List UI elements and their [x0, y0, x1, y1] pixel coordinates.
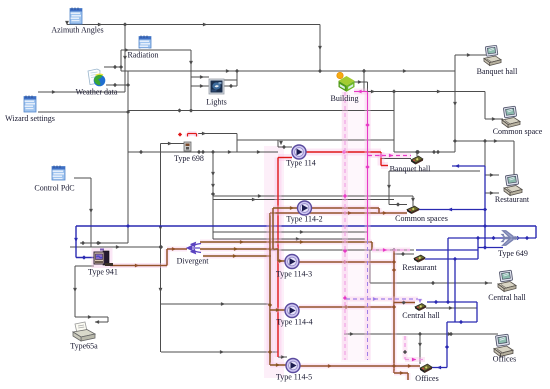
fan unit Banquet hall: [411, 156, 423, 165]
wire restaurant fan left stub: [394, 252, 414, 256]
pump Type 114-3: [285, 255, 299, 269]
pc Offices: [494, 334, 513, 356]
fan unit Offices: [420, 364, 432, 373]
notepad Azimuth Angles: [70, 8, 82, 25]
wire row y140 and pump type114 input: [237, 140, 394, 149]
wire wizard-settings lower output: [38, 111, 128, 113]
svg-text:Banquet hall: Banquet hall: [390, 165, 431, 174]
wire azimuth-angles output: [65, 21, 322, 71]
wire brown vertical x270: [268, 213, 272, 365]
wire row y196 to common spaces: [213, 194, 415, 206]
wire row y247: [70, 245, 163, 249]
wire violet central fan dashed: [346, 297, 422, 303]
wire azimuth column to wizard row: [38, 25, 127, 94]
svg-text:Divergent: Divergent: [177, 257, 210, 266]
wire restaurant pc top input: [455, 139, 514, 177]
svg-text:Type 649: Type 649: [498, 249, 528, 258]
svg-text:Lights: Lights: [206, 98, 226, 107]
wire row y152 left: [128, 150, 278, 154]
wire brown central fan feed: [394, 300, 415, 304]
svg-text:Type 941: Type 941: [88, 268, 118, 277]
svg-text:Type 114-2: Type 114-2: [286, 215, 322, 224]
wire row y308: [426, 306, 477, 310]
wire brown vertical x394: [392, 250, 396, 373]
wire control-pdc output: [74, 178, 93, 247]
wire brown divergent out2: [200, 247, 285, 263]
svg-text:Wizard settings: Wizard settings: [5, 114, 55, 123]
wire brown pump114-4 output: [299, 305, 394, 309]
wire row y110: [128, 108, 394, 112]
pump Type 114-2: [298, 201, 312, 215]
wire brown divergent out1: [200, 240, 372, 250]
svg-text:Central hall: Central hall: [402, 311, 440, 320]
wire lights input bottom: [191, 84, 209, 88]
fan unit Common spaces: [407, 206, 419, 214]
wire brown offices fan feed2: [394, 371, 408, 380]
wire blue main bus y226: [74, 224, 536, 260]
wire brown pump114-5 output offices feed: [300, 364, 420, 368]
wire row y334 offices pc: [344, 332, 498, 336]
wire building output black: [354, 69, 503, 121]
icon Type 941: [92, 248, 114, 268]
wire blue plane row y238: [448, 236, 536, 240]
wire red type698 bracket: [178, 132, 197, 136]
wire type941 bottom loop to type65a: [73, 266, 108, 324]
wire blue common fan: [419, 208, 485, 212]
notepad Control PdC: [52, 166, 65, 181]
wire box right x394 and bottom: [394, 55, 457, 154]
wire row y199.5: [213, 198, 394, 202]
svg-text:Type65a: Type65a: [70, 342, 98, 351]
wire magenta building output x367: [354, 90, 370, 240]
wire type698 top loop: [198, 132, 237, 152]
wire type698 input: [161, 142, 187, 146]
pink highlight band central column: [264, 146, 284, 378]
wire restaurant pc stub2: [485, 191, 499, 195]
svg-text:Common spaces: Common spaces: [395, 214, 448, 223]
svg-text:Control PdC: Control PdC: [34, 184, 74, 193]
notepad Wizard settings: [24, 96, 36, 113]
wire blue stub y166: [452, 164, 485, 168]
svg-text:Banquet hall: Banquet hall: [477, 67, 518, 76]
pump Type 114: [292, 145, 306, 159]
wire magenta vertical x367 dashed lower: [365, 240, 371, 360]
pink highlight band magenta columns: [341, 90, 371, 362]
wire blue plane to central fan: [427, 238, 477, 304]
svg-text:Azimuth Angles: Azimuth Angles: [51, 26, 103, 35]
wire lights output: [224, 71, 237, 88]
svg-text:Type 698: Type 698: [174, 154, 204, 163]
pc Central hall: [498, 270, 516, 291]
wire restaurant pc stub1: [485, 173, 499, 177]
svg-text:Central hall: Central hall: [488, 293, 526, 302]
svg-text:Type 114: Type 114: [286, 159, 316, 168]
icon Type 698: [184, 142, 191, 151]
fan unit Restaurant: [414, 255, 425, 263]
svg-text:Offices: Offices: [493, 355, 516, 364]
pc Restaurant: [504, 174, 522, 195]
svg-text:Radiation: Radiation: [127, 51, 158, 60]
wire blue central-offices path: [432, 302, 477, 369]
wire red pump type114 loop: [278, 150, 388, 357]
wire magenta restaurant fan dashed: [372, 248, 410, 252]
wire offices fan top drop: [418, 334, 422, 364]
wire vertical x213 row y239: [211, 152, 365, 241]
wire row y352: [161, 350, 287, 359]
svg-text:Restaurant: Restaurant: [402, 263, 437, 272]
pump Type 114-5: [286, 359, 300, 373]
wire brown common-spaces feed y213: [270, 211, 407, 215]
pc Common space: [502, 106, 520, 127]
svg-text:Type 114-5: Type 114-5: [276, 373, 312, 382]
svg-text:Offices: Offices: [415, 374, 438, 383]
wire lights input top: [191, 75, 209, 79]
svg-text:Type 114-3: Type 114-3: [276, 270, 312, 279]
wire magenta banquet fan dashed: [368, 154, 411, 158]
wire weather-data lower output: [106, 83, 128, 87]
wire vertical x160: [158, 144, 162, 353]
wire brown pump114-2 output: [312, 208, 379, 213]
svg-text:Common space: Common space: [493, 127, 543, 136]
wire long horizontal y71: [121, 69, 455, 73]
wire brown pump114-3 output: [299, 260, 394, 264]
wire blue vertical x455: [454, 259, 456, 322]
wire row y232: [213, 230, 367, 234]
svg-text:Restaurant: Restaurant: [495, 195, 530, 204]
wire brown divergent out3: [203, 254, 271, 258]
pc Banquet hall: [484, 45, 501, 65]
wire brown pump114-4 input: [270, 308, 285, 312]
wire banquet fan row y171: [387, 171, 480, 207]
wire blue vertical x485: [483, 166, 487, 248]
icon Lights: [209, 79, 224, 94]
wire row y304 left: [161, 302, 270, 306]
wire brown pump114-2 input: [273, 206, 297, 249]
svg-text:Building: Building: [330, 94, 358, 103]
icon Divergent: [187, 242, 201, 253]
wire brown type941 output: [110, 247, 187, 267]
wire brown pump114-5 input: [270, 363, 286, 367]
pump Type 114-4: [285, 304, 299, 318]
icon Weather data: [88, 69, 105, 86]
icon Building: [337, 72, 355, 92]
wire banquet-hall pc input: [455, 53, 486, 57]
wire banquet fan drop: [415, 150, 419, 156]
wire radiation drop: [104, 48, 191, 71]
wire blue restaurant fan loop: [416, 236, 503, 261]
wire magenta offices fan dashed: [403, 336, 425, 361]
wire row y283 central-hall pc: [370, 250, 492, 285]
notepad Radiation: [139, 36, 151, 50]
wire radiation column x191: [189, 50, 193, 110]
wire row y243: [80, 241, 128, 245]
icon Type65a: [73, 322, 95, 341]
wire banquet fan row y158: [381, 158, 411, 160]
svg-text:Type 114-4: Type 114-4: [276, 318, 312, 327]
icon Type 649: [502, 231, 519, 245]
wire left box edge x128: [126, 71, 130, 243]
wire pink dashed vertical x345: [343, 92, 347, 360]
svg-text:Weather data: Weather data: [76, 88, 118, 97]
wire row y250: [271, 248, 414, 252]
fan unit Central hall: [415, 304, 426, 312]
